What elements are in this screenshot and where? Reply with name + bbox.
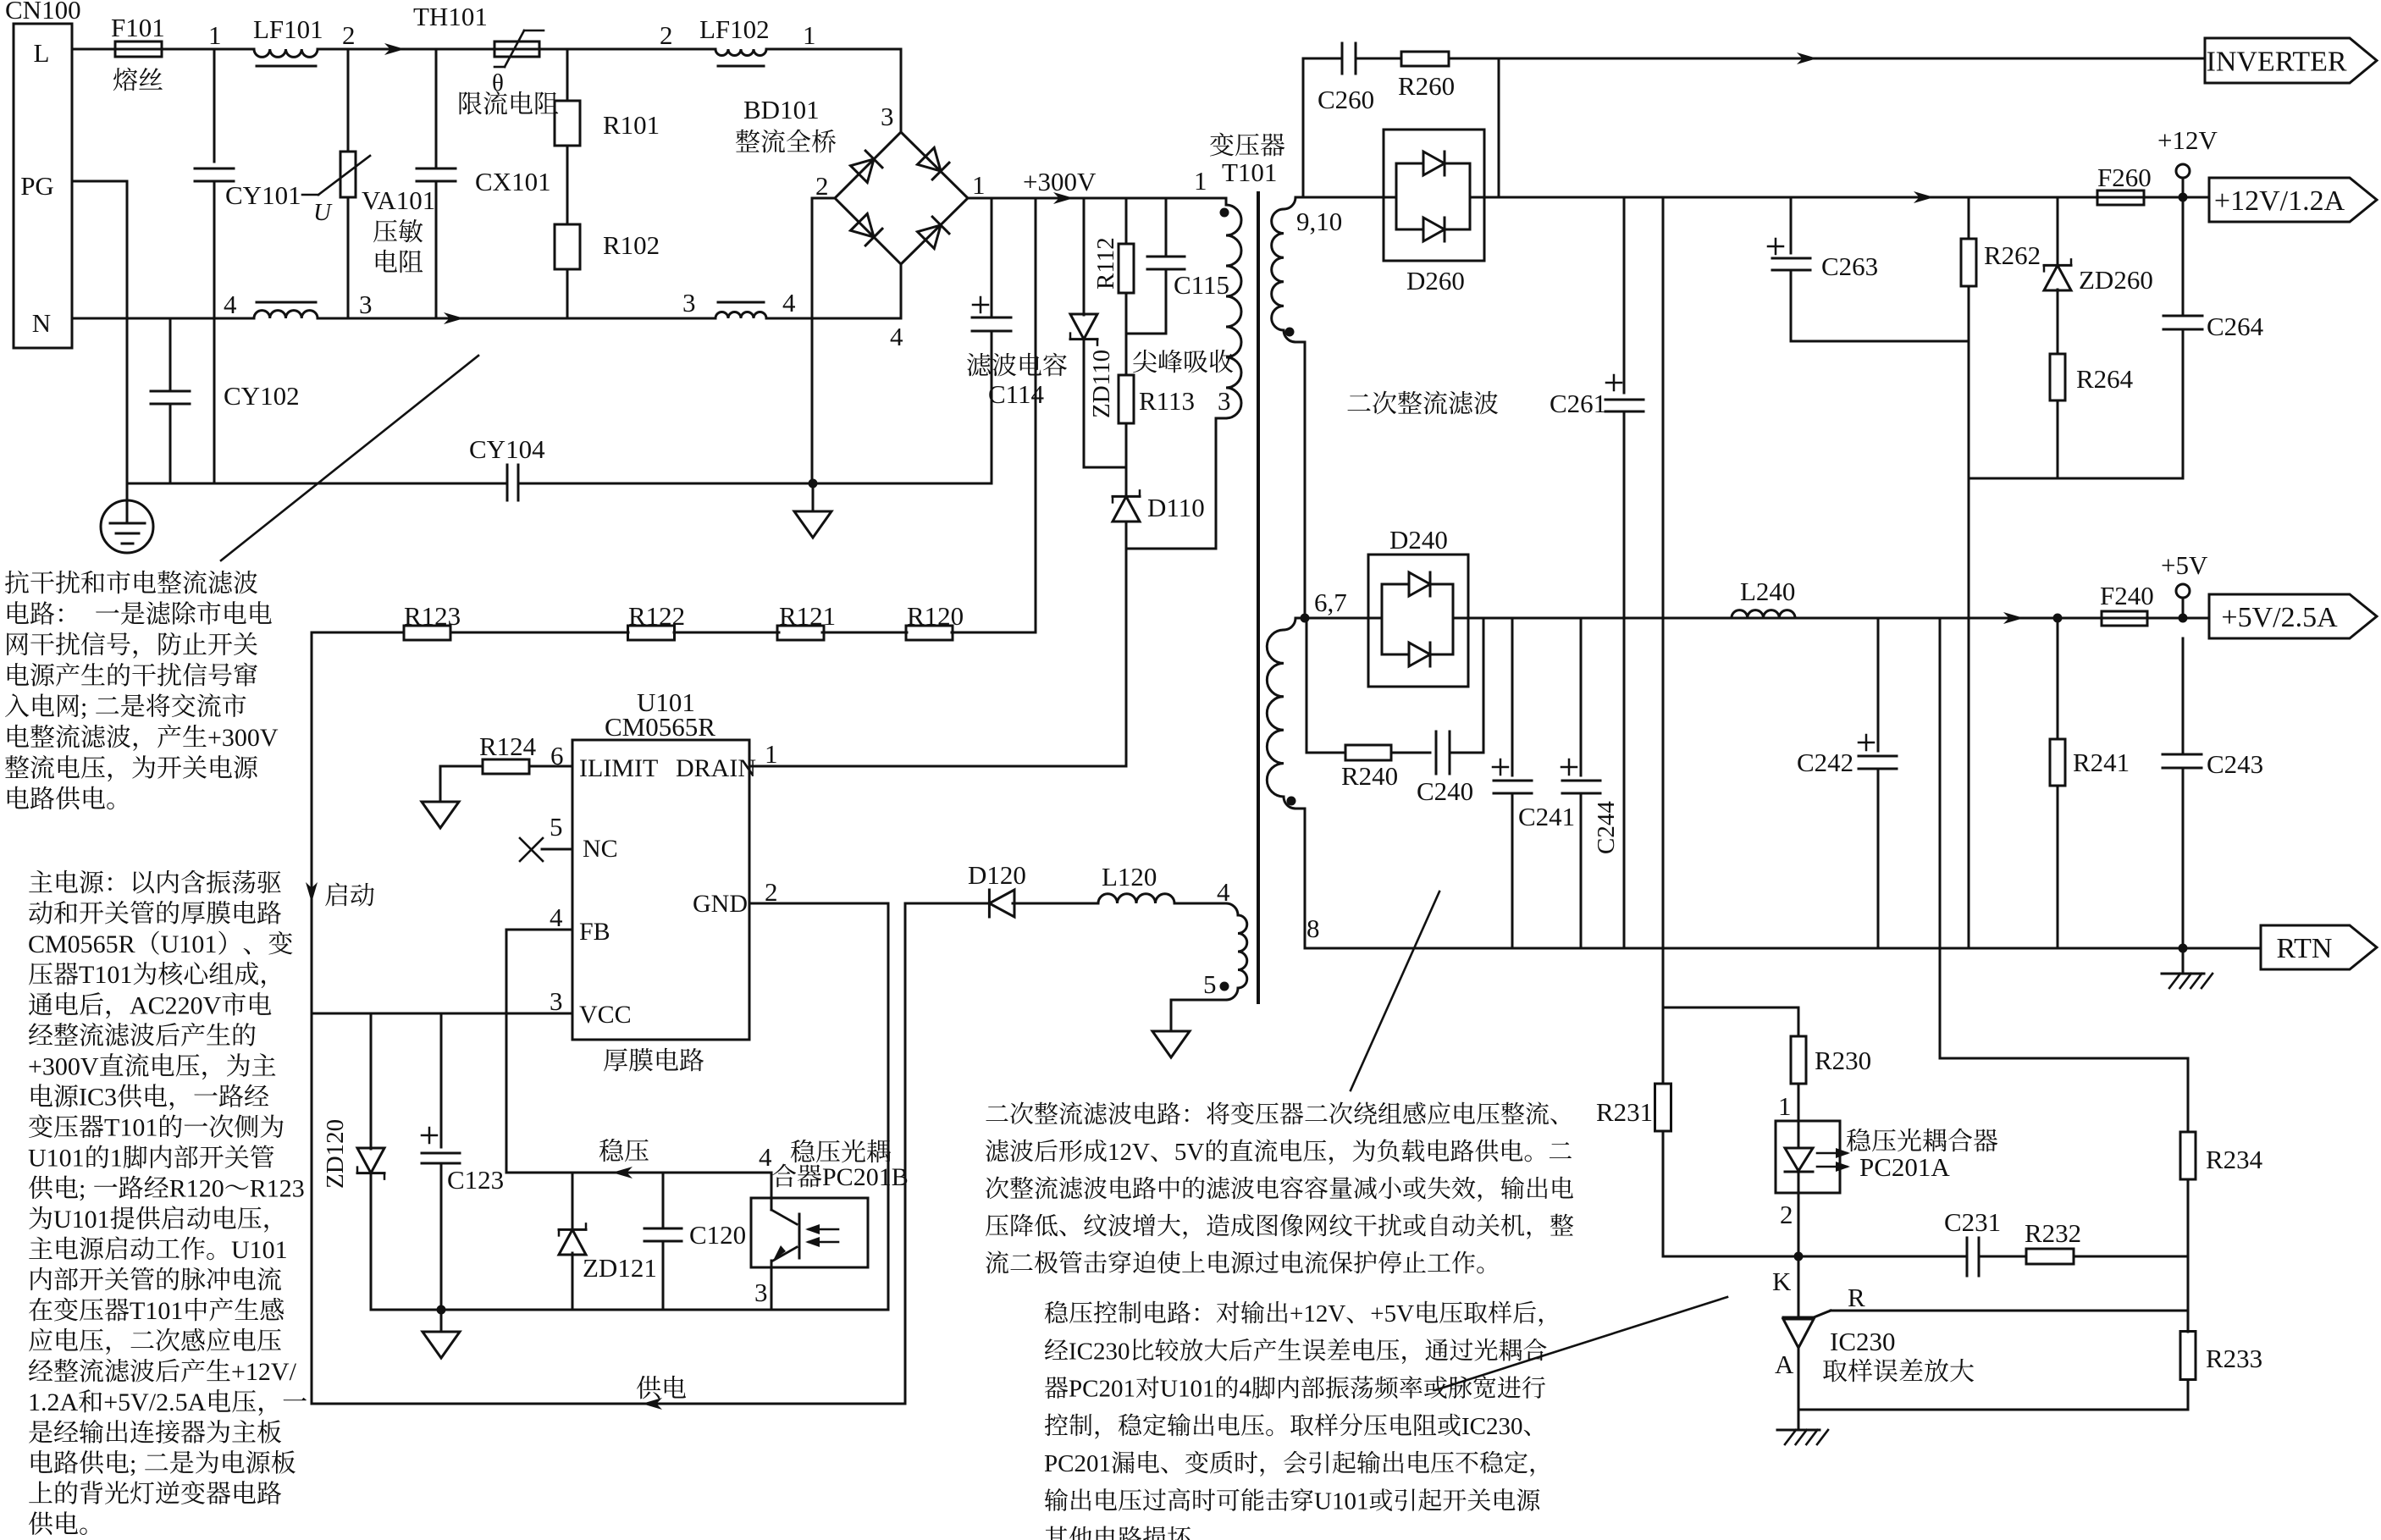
- svg-text:1.2A: 1.2A: [28, 1388, 79, 1416]
- svg-text:C241: C241: [1518, 802, 1575, 831]
- +5V terminal: [2182, 598, 2185, 618]
- wire +5V sample line: [1939, 618, 1942, 1058]
- svg-text:R233: R233: [2206, 1344, 2262, 1373]
- svg-text:4: 4: [782, 288, 796, 317]
- optocoupler PC201A box: [1776, 1121, 1840, 1193]
- wire primary ground rail under U101: [371, 1309, 888, 1311]
- note regulation text: [1045, 1301, 1068, 1324]
- svg-text:R123: R123: [404, 601, 461, 631]
- resistor R102: [566, 146, 569, 224]
- svg-text:C123: C123: [447, 1165, 504, 1195]
- svg-text:N: N: [32, 308, 51, 338]
- svg-text:ZD110: ZD110: [1088, 350, 1115, 418]
- svg-text:R264: R264: [2076, 364, 2134, 394]
- svg-text:12V: 12V: [1108, 1139, 1150, 1166]
- wire primary bottom pin3 to drain: [1215, 418, 1218, 549]
- svg-text:C263: C263: [1821, 251, 1878, 281]
- svg-text:R101: R101: [603, 110, 660, 140]
- wire inverter arrow: [1797, 52, 1817, 64]
- protective earth symbol: [101, 500, 153, 553]
- svg-text:AC220V: AC220V: [130, 991, 222, 1019]
- svg-text:U101: U101: [161, 930, 218, 958]
- diode D110: [1125, 467, 1128, 494]
- svg-text:T101: T101: [130, 1297, 183, 1325]
- secondary 6,7 phasing dot: [1287, 797, 1296, 806]
- bridge rectifier BD101: [835, 132, 968, 264]
- wire K node: [1663, 1256, 1967, 1258]
- RTN chassis ground: [2182, 948, 2185, 974]
- svg-text:1: 1: [765, 739, 778, 769]
- wire bridge pin3 to L: [900, 49, 903, 132]
- wire C263 bottom link: [1791, 340, 1969, 343]
- resistor R101: [566, 49, 569, 101]
- diode D240 lower: [1409, 643, 1430, 666]
- svg-text:PG: PG: [20, 171, 54, 201]
- transformer secondary winding 6,7-8: [1284, 618, 1295, 630]
- svg-text:ILIMIT: ILIMIT: [579, 754, 658, 782]
- svg-text:5V: 5V: [1174, 1139, 1205, 1166]
- wire bridge pin4 to N: [900, 264, 903, 318]
- svg-text:+300V: +300V: [1023, 167, 1097, 196]
- svg-text:R120: R120: [907, 601, 964, 631]
- svg-text:ZD120: ZD120: [322, 1119, 349, 1189]
- note EMI filter text: [5, 571, 29, 593]
- resistor R122: [628, 626, 675, 640]
- leader line EMI note: [221, 356, 478, 560]
- capacitor C264: [2182, 197, 2185, 316]
- svg-text:VA101: VA101: [362, 185, 435, 215]
- fuse F260: [2097, 196, 2144, 199]
- primary ground symbol: [812, 483, 815, 511]
- svg-text:1: 1: [208, 20, 222, 50]
- diode BD101 upper-left: [850, 151, 881, 182]
- +12V terminal: [2182, 178, 2185, 197]
- inductor L120: [1098, 894, 1174, 903]
- svg-text:CY101: CY101: [225, 180, 301, 210]
- svg-text:L: L: [34, 38, 50, 68]
- svg-text:U: U: [313, 199, 333, 226]
- svg-text:F101: F101: [111, 13, 165, 42]
- resistor R112: [1125, 198, 1128, 244]
- svg-text:F260: F260: [2097, 163, 2152, 192]
- capacitor C120: [662, 1173, 665, 1228]
- inductor LF101 neutral winding: [254, 311, 318, 318]
- svg-text:C240: C240: [1417, 776, 1473, 806]
- svg-text:IC230: IC230: [1461, 1413, 1523, 1440]
- svg-text:+5V: +5V: [1370, 1300, 1414, 1327]
- wire +300V rail: [968, 197, 1226, 200]
- diode D260 lower: [1423, 218, 1445, 241]
- svg-text:2: 2: [660, 20, 673, 50]
- wire ZD110 to R113 node: [1084, 466, 1126, 469]
- svg-text:R124: R124: [479, 731, 537, 761]
- svg-text:;: ;: [79, 1175, 86, 1203]
- svg-text:LF102: LF102: [699, 14, 770, 44]
- diode BD101 upper-right: [917, 147, 948, 179]
- IC230 ground: [1798, 1410, 1800, 1430]
- inductor LF101 line winding: [254, 49, 318, 57]
- svg-text:PC201: PC201: [1044, 1450, 1111, 1477]
- svg-text:CM0565R: CM0565R: [28, 930, 135, 958]
- connector CN100: [14, 24, 72, 348]
- leader line regulation note: [1435, 1297, 1727, 1390]
- zener ZD120: [370, 1013, 373, 1149]
- svg-text:R234: R234: [2206, 1145, 2263, 1174]
- svg-text:C260: C260: [1318, 85, 1374, 114]
- svg-text:ZD121: ZD121: [583, 1253, 657, 1283]
- wire 9,10 rail to D260: [1303, 196, 1384, 199]
- svg-text:+5V/2.5A: +5V/2.5A: [2221, 602, 2338, 633]
- svg-text:DRAIN: DRAIN: [676, 754, 756, 782]
- IC230 reference pin R: [1814, 1311, 1831, 1317]
- svg-text:3: 3: [682, 288, 696, 317]
- svg-text:C243: C243: [2207, 749, 2263, 779]
- svg-text:4: 4: [759, 1142, 772, 1172]
- fuse F101: [115, 48, 162, 51]
- svg-text:2: 2: [1780, 1200, 1793, 1229]
- svg-text:A: A: [1775, 1350, 1794, 1379]
- capacitor C123: [440, 1013, 443, 1147]
- svg-text:;: ;: [130, 1449, 136, 1477]
- svg-text:+300V: +300V: [207, 724, 279, 752]
- wire PG to protective earth: [72, 180, 127, 183]
- svg-text:R240: R240: [1341, 761, 1398, 791]
- snubber label: [1133, 350, 1157, 373]
- svg-text:3: 3: [550, 986, 563, 1016]
- svg-text:+12V/: +12V/: [231, 1358, 297, 1386]
- svg-text:LF101: LF101: [253, 14, 323, 44]
- svg-text:PC201A: PC201A: [1859, 1152, 1950, 1182]
- svg-text:+12V: +12V: [2157, 125, 2218, 155]
- svg-text:F240: F240: [2100, 581, 2154, 610]
- svg-text:U101: U101: [231, 1236, 288, 1264]
- flag +12V/1.2A output: [2209, 178, 2377, 222]
- svg-text:FB: FB: [579, 918, 610, 946]
- optocoupler PC201B light arrows: [809, 1228, 838, 1231]
- svg-text:5: 5: [1203, 969, 1217, 999]
- svg-text:BD101: BD101: [743, 95, 820, 124]
- svg-text:CM0565R: CM0565R: [605, 712, 715, 742]
- svg-text:CX101: CX101: [475, 167, 551, 196]
- svg-text:9,10: 9,10: [1296, 207, 1342, 236]
- svg-text:1: 1: [803, 20, 816, 50]
- wire tap 9,10 to 6,7: [1304, 342, 1307, 618]
- resistor R232: [2026, 1249, 2074, 1264]
- wire N net: [72, 317, 254, 320]
- svg-text:;: ;: [80, 693, 87, 721]
- svg-text:1: 1: [1194, 166, 1207, 196]
- wire A node to R233: [1798, 1409, 2188, 1411]
- svg-text:R120: R120: [169, 1175, 224, 1203]
- capacitor C231: [1966, 1238, 1969, 1276]
- svg-text:2: 2: [342, 20, 356, 50]
- wire RTN rail: [1305, 947, 2261, 950]
- wire startup rail down / qidong: [311, 632, 313, 1404]
- svg-text:R102: R102: [603, 230, 660, 260]
- transformer core: [1257, 193, 1260, 1002]
- svg-text:+5V: +5V: [2161, 550, 2208, 580]
- svg-text:U101: U101: [28, 1145, 85, 1173]
- flag RTN output: [2261, 925, 2377, 969]
- thermistor TH101: [494, 48, 539, 51]
- capacitor CY104: [506, 465, 509, 500]
- svg-text:R260: R260: [1398, 71, 1455, 101]
- resistor R241: [2057, 618, 2059, 739]
- svg-text:C264: C264: [2207, 312, 2264, 341]
- svg-text:PC201B: PC201B: [822, 1163, 909, 1191]
- flag +5V/2.5A output: [2209, 594, 2377, 638]
- capacitor C263: [1790, 197, 1793, 253]
- rectifier D260 box: [1384, 130, 1484, 261]
- resistor R262: [1968, 197, 1970, 239]
- wire L net: [72, 48, 115, 51]
- leader line secondary note: [1351, 891, 1439, 1090]
- resistor R260: [1401, 52, 1449, 66]
- diode BD101 lower-left: [850, 213, 881, 245]
- svg-text:4: 4: [1217, 877, 1230, 907]
- svg-text:L120: L120: [1102, 862, 1157, 891]
- svg-text:+300V: +300V: [28, 1052, 99, 1080]
- IC U101 CM0565R box: [572, 740, 749, 1040]
- capacitor C244: [1580, 618, 1583, 776]
- resistor R234: [2187, 1058, 2190, 1132]
- svg-text:R112: R112: [1092, 237, 1119, 290]
- transformer primary phasing dot: [1220, 208, 1229, 218]
- svg-text:T101: T101: [79, 961, 132, 989]
- diode BD101 lower-right: [917, 217, 948, 248]
- optocoupler PC201B box: [751, 1198, 868, 1267]
- svg-text:R: R: [1848, 1283, 1865, 1312]
- varistor VA101: [347, 49, 350, 152]
- svg-text:C242: C242: [1797, 748, 1853, 777]
- optocoupler PC201A light arrows: [1817, 1152, 1847, 1155]
- diode D240 upper: [1409, 572, 1430, 596]
- svg-text:PC201: PC201: [1069, 1376, 1135, 1403]
- aux winding phasing dot: [1220, 982, 1229, 991]
- note main power text: [29, 870, 52, 892]
- svg-text:+12V: +12V: [1290, 1300, 1345, 1327]
- zener ZD121: [572, 1173, 574, 1228]
- svg-text:R121: R121: [779, 601, 836, 631]
- svg-text:C244: C244: [1593, 801, 1620, 854]
- svg-text:U101: U101: [1160, 1376, 1214, 1403]
- svg-text:R113: R113: [1139, 386, 1195, 416]
- wire N arrow: [444, 312, 464, 324]
- capacitor CY102: [169, 318, 172, 391]
- capacitor C261: [1623, 197, 1626, 393]
- optocoupler PC201B phototransistor: [771, 1173, 773, 1198]
- svg-text:CY102: CY102: [224, 381, 300, 411]
- svg-text:T101: T101: [1222, 157, 1277, 187]
- optocoupler PC201A LED: [1798, 1121, 1800, 1148]
- capacitor C260: [1303, 58, 1342, 60]
- inductor LF102 line winding: [715, 49, 766, 56]
- wire bridge pin2 to ground rail: [812, 197, 835, 200]
- svg-text:IC230: IC230: [1830, 1327, 1896, 1356]
- wire F260 to +12V flag: [2144, 196, 2209, 199]
- wire pin 8 to RTN rail: [1304, 809, 1307, 948]
- svg-text:3: 3: [359, 290, 373, 319]
- svg-text:IC230: IC230: [1069, 1338, 1130, 1365]
- wire F240 to +5V flag: [2147, 617, 2209, 620]
- resistor R231: [1655, 1084, 1671, 1131]
- svg-text:TH101: TH101: [413, 2, 488, 31]
- wire R262 R264 C264 bottom link: [1969, 477, 2183, 480]
- svg-text:L240: L240: [1740, 577, 1795, 606]
- capacitor CY101: [213, 49, 216, 162]
- diode D260 upper: [1423, 152, 1445, 175]
- wire PE ground rail: [127, 483, 507, 485]
- svg-text:CN100: CN100: [5, 0, 81, 25]
- svg-text:4: 4: [890, 322, 903, 351]
- svg-text:1: 1: [1778, 1091, 1792, 1121]
- svg-text:+12V/1.2A: +12V/1.2A: [2214, 185, 2345, 217]
- transformer T101 primary winding: [1225, 198, 1228, 205]
- wire L arrow: [384, 43, 405, 55]
- svg-text:2: 2: [815, 171, 829, 201]
- svg-text:6,7: 6,7: [1314, 588, 1347, 617]
- svg-text:1: 1: [110, 1145, 123, 1173]
- svg-text:D110: D110: [1147, 493, 1205, 522]
- wire R260 to inverter line: [1449, 58, 2205, 60]
- svg-text:IC3: IC3: [79, 1084, 117, 1112]
- svg-text:4: 4: [1239, 1376, 1251, 1403]
- svg-text:R122: R122: [628, 601, 685, 631]
- svg-text:C231: C231: [1944, 1207, 2001, 1237]
- svg-text:8: 8: [1307, 914, 1320, 943]
- svg-text:R123: R123: [250, 1175, 305, 1203]
- svg-text:K: K: [1772, 1267, 1792, 1296]
- resistor R123: [404, 626, 450, 640]
- transformer aux winding 4-5: [1226, 903, 1238, 915]
- wire +12V sample to R230: [1663, 1007, 1798, 1009]
- wire +12V rail: [1484, 196, 2097, 199]
- capacitor C243: [2182, 638, 2185, 753]
- svg-text:R230: R230: [1815, 1046, 1871, 1075]
- svg-text:R231: R231: [1596, 1097, 1653, 1127]
- wire riser to C260: [1302, 58, 1305, 197]
- resistor R264: [2050, 354, 2065, 400]
- resistor R121: [777, 626, 824, 640]
- rectifier D240 box: [1368, 555, 1468, 687]
- svg-text:R262: R262: [1984, 240, 2041, 270]
- wire +5V rail: [1468, 617, 2102, 620]
- inductor LF102 neutral winding: [715, 312, 766, 319]
- wire +5V sample to R234: [1940, 1057, 2188, 1060]
- svg-text:U101: U101: [1314, 1488, 1368, 1515]
- svg-text:U101: U101: [53, 1206, 110, 1234]
- svg-text:3: 3: [881, 102, 894, 131]
- svg-text:T101: T101: [104, 1114, 157, 1142]
- secondary 9,10 phasing dot: [1285, 328, 1295, 337]
- svg-text:+5V/2.5A: +5V/2.5A: [103, 1388, 206, 1416]
- svg-text:RTN: RTN: [2277, 933, 2333, 964]
- snubber R240 C240 branch: [1306, 618, 1308, 753]
- zener ZD260: [2057, 197, 2059, 264]
- primary ground triangle under C123: [440, 1310, 443, 1332]
- resistor R113: [1125, 293, 1128, 375]
- diode D120: [904, 903, 907, 1404]
- svg-text:3: 3: [1218, 386, 1231, 416]
- fuse F240: [2102, 617, 2147, 620]
- junction bridge negative to PE rail: [809, 479, 818, 488]
- svg-text:1: 1: [972, 170, 986, 200]
- svg-text:C261: C261: [1550, 389, 1606, 418]
- svg-text:C120: C120: [689, 1220, 746, 1250]
- svg-text:C115: C115: [1174, 270, 1229, 300]
- capacitor CX101: [435, 49, 438, 168]
- wire 6,7 node: [1301, 614, 1310, 623]
- capacitor C242: [1877, 618, 1880, 751]
- svg-text:ZD260: ZD260: [2079, 265, 2153, 295]
- wire wenya feedback: [506, 1172, 771, 1174]
- resistor R124: [529, 765, 572, 768]
- wire +12V sample line: [1662, 197, 1665, 1084]
- resistor R120: [906, 626, 953, 640]
- svg-text:D260: D260: [1406, 266, 1465, 295]
- capacitor C115: [1165, 198, 1168, 257]
- svg-text:5: 5: [550, 812, 563, 842]
- inductor L240: [1732, 610, 1795, 618]
- note secondary rectifier text: [986, 1105, 1008, 1121]
- svg-text:VCC: VCC: [579, 1001, 632, 1029]
- svg-text:R241: R241: [2073, 748, 2130, 777]
- capacitor C241: [1511, 618, 1514, 776]
- svg-text:CY104: CY104: [469, 434, 545, 464]
- wire startup chain from +300V: [1035, 198, 1037, 632]
- svg-text:INVERTER: INVERTER: [2207, 46, 2347, 77]
- svg-text:NC: NC: [583, 835, 618, 863]
- zener ZD110: [1083, 198, 1086, 315]
- capacitor C114 filter: [991, 198, 993, 317]
- svg-text:GND: GND: [693, 890, 748, 918]
- flag INVERTER output: [2205, 38, 2377, 83]
- shunt regulator IC230: [1798, 1256, 1800, 1317]
- wire aux pin5 to ground: [1171, 999, 1226, 1002]
- resistor R230: [1791, 1036, 1806, 1084]
- wire gongdian supply rail: [312, 1403, 905, 1405]
- svg-text:D120: D120: [968, 860, 1026, 890]
- svg-text:R232: R232: [2025, 1218, 2081, 1248]
- svg-text:4: 4: [550, 902, 563, 932]
- svg-text:4: 4: [224, 290, 237, 319]
- transformer secondary winding 9,10: [1295, 196, 1303, 199]
- resistor R233: [2180, 1332, 2196, 1380]
- svg-text:D240: D240: [1389, 525, 1448, 555]
- svg-text:3: 3: [754, 1278, 768, 1307]
- node K: [1794, 1252, 1804, 1261]
- ground for R124: [439, 766, 442, 802]
